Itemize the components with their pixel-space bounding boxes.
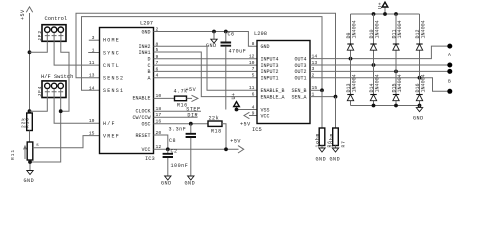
IC3 L297 left pin names [103,38,124,140]
svg-text:Control: Control [45,16,68,22]
svg-text:U+: U+ [231,92,237,99]
node GND symbol tap [212,30,216,34]
svg-text:1N4004: 1N4004 [397,74,403,92]
svg-text:OUT3: OUT3 [294,63,306,69]
+5V supply arrow top-left [20,7,33,53]
svg-text:SEN_A: SEN_A [291,94,306,100]
wire INH1 to ENABLE_A [154,52,258,97]
wire INH2 to ENABLE_B [154,46,258,90]
svg-text:C8: C8 [169,138,176,144]
node C2 junction [166,147,170,151]
svg-text:VREF: VREF [103,133,120,139]
wire R11 wiper to VREF [33,136,100,148]
svg-text:9: 9 [252,111,255,117]
connector JP2 Control [37,16,67,41]
svg-text:15: 15 [89,131,95,137]
ground GND below R6 [316,148,327,163]
svg-text:ENABLE_A: ENABLE_A [261,94,285,100]
svg-text:IC3: IC3 [145,156,155,162]
svg-text:11: 11 [89,60,95,66]
svg-text:A: A [147,76,150,82]
svg-text:8: 8 [252,41,255,47]
connector JP4 H/F Switch [37,74,73,98]
node SEN_A junction [334,95,338,99]
svg-text:R10: R10 [25,117,31,128]
resistor R7 1ohm [329,97,347,148]
wire OUT4 to terminal [310,46,450,59]
wire JP4 pin3 down to GND node [30,98,61,163]
svg-text:10: 10 [249,60,255,66]
wire OUT3 to terminal [310,64,450,66]
wire HOME stub [89,39,100,41]
IC IC5 L298 box [252,31,310,133]
svg-text:C: C [147,63,150,69]
svg-text:7: 7 [252,66,255,72]
wire R11 bottom to GND [29,160,31,170]
IC5 L298 left pin numbers [249,41,255,117]
node terminal A1 [447,44,452,49]
diode D9 1N4004 [346,14,357,106]
svg-text:CNTL: CNTL [103,63,120,69]
svg-text:VSS: VSS [261,107,270,113]
svg-text:JP2: JP2 [37,30,43,41]
svg-text:GND: GND [413,116,424,122]
svg-text:H/F: H/F [103,121,116,127]
supply U+ top rail [351,2,420,16]
svg-text:1N4004: 1N4004 [420,20,426,38]
svg-text:R7: R7 [341,140,347,147]
svg-text:+5V: +5V [186,87,197,93]
IC5 L298 right pin names [291,56,306,100]
svg-text:GND: GND [330,157,341,163]
svg-text:CW/CCW: CW/CCW [132,115,150,121]
svg-text:13: 13 [89,73,95,79]
svg-text:3.3nF: 3.3nF [169,126,187,132]
svg-text:GND: GND [206,43,217,49]
wire GND net L297 pin2 to L298 pin8 [154,32,258,47]
IC3 L297 left pin numbers [89,35,95,137]
wire CLOCK STEP stub [154,110,202,112]
svg-text:OSC: OSC [141,121,150,127]
capacitor C8 3.3nF [169,124,197,176]
resistor R16 4.7k with +5V [154,87,198,108]
ground GND left-bottom [24,171,35,185]
svg-text:100nF: 100nF [171,163,189,169]
diode D15 1N4004 [392,74,403,100]
wire A to INPUT1 [154,77,258,79]
node OUT4-D9 junction [349,57,353,61]
svg-text:VCC: VCC [261,114,270,120]
svg-text:OUT1: OUT1 [294,75,306,81]
svg-text:6: 6 [252,91,255,97]
wire SEN_A to sense node [310,96,336,98]
svg-text:OUT2: OUT2 [294,69,306,75]
svg-text:1: 1 [92,48,95,54]
node rail-JP2 junction [28,50,32,54]
wire JP2 pin1 to +5V rail [30,41,48,52]
node rail-GND junction [418,104,422,108]
IC3 L297 right pin numbers [156,27,162,151]
svg-text:GND: GND [185,180,196,186]
svg-text:D: D [147,57,150,63]
diode D11 1N4004 [392,14,403,106]
svg-text:INH1: INH1 [138,50,150,56]
node +5V arrow mid [230,139,243,153]
node rail-D15 junction [394,104,398,108]
svg-text:GND: GND [24,178,35,184]
svg-text:SENS2: SENS2 [103,76,124,82]
svg-text:11: 11 [249,85,255,91]
resistor R6 1ohm [315,90,333,148]
svg-text:R18: R18 [211,129,222,135]
diode D12 1N4004 [415,14,426,106]
svg-text:GND: GND [261,44,270,50]
svg-text:L297: L297 [140,21,153,27]
svg-text:1ohm: 1ohm [329,133,335,148]
node terminal A2 [447,63,452,68]
svg-text:4: 4 [252,104,255,110]
supply U+ at L298 VSS [231,92,257,111]
svg-text:B: B [147,69,150,75]
ground GND below C2 [161,176,172,186]
svg-text:RESET: RESET [135,133,150,139]
svg-text:22k: 22k [209,115,220,121]
wire B to INPUT2 [154,70,258,72]
svg-text:C6: C6 [228,32,235,38]
wire OUT1 to terminal [310,78,450,92]
wire SENS1 wrap over top [82,17,323,91]
diode D16 1N4004 [415,74,426,100]
svg-text:1N4004: 1N4004 [374,74,380,92]
wire bottom diode rail [351,105,420,107]
resistor R10 22k [20,113,32,131]
node terminal B1 [447,69,452,74]
svg-text:HOME: HOME [103,38,120,44]
node C6 tap [224,30,228,34]
svg-text:H/F Switch: H/F Switch [41,74,73,80]
svg-text:OUT4: OUT4 [294,56,306,62]
IC IC3 L297 box [100,21,155,163]
svg-text:+5V: +5V [240,122,251,128]
svg-text:IC5: IC5 [252,127,262,133]
wire VCC +5V line [154,148,239,150]
svg-text:B: B [448,78,451,84]
wire JP4 pin1 to +5V rail [30,98,48,112]
node rail-D14 junction [372,104,376,108]
diode D14 1N4004 [369,74,380,100]
svg-text:GND: GND [141,29,150,35]
node OUT2-D11 junction [394,70,398,74]
wire D to INPUT4 [154,58,258,60]
node DIR label [187,113,198,119]
svg-text:ENABLE_B: ENABLE_B [261,88,285,94]
node R11 bottom junction [28,160,32,164]
node rail-JP4 junction [28,109,32,113]
svg-text:12: 12 [249,53,255,59]
node JP4 pin3 junction [59,109,63,113]
wire OSC node [154,123,209,125]
ground GND mid-top [206,32,217,50]
wire JP2 pin3 to GND net staircase [61,41,69,111]
svg-text:19: 19 [89,118,95,124]
svg-text:1N4004: 1N4004 [351,20,357,38]
resistor R18 22k [208,115,226,149]
svg-text:GND: GND [316,157,327,163]
svg-text:INPUT4: INPUT4 [261,56,279,62]
svg-text:CLOCK: CLOCK [135,109,150,115]
svg-text:R11: R11 [10,149,16,160]
svg-text:SEN_B: SEN_B [291,88,306,94]
svg-text:+5V: +5V [230,139,241,145]
wire C to INPUT3 [154,64,258,66]
svg-text:JP4: JP4 [37,86,43,97]
svg-text:INPUT3: INPUT3 [261,63,279,69]
svg-text:1N4004: 1N4004 [420,74,426,92]
svg-text:INPUT1: INPUT1 [261,75,279,81]
wire CW/CCW DIR stub [154,116,198,118]
capacitor C6 470uF [221,32,247,110]
IC5 L298 left pin names [261,44,285,120]
svg-text:DIR: DIR [187,113,198,119]
ground GND below R7 [330,148,341,163]
svg-text:1N4004: 1N4004 [374,20,380,38]
wire SEN_B to sense node [310,89,322,91]
wire JP4 pin2 to H/F pin19 [54,98,99,124]
svg-text:5: 5 [252,72,255,78]
svg-text:VCC: VCC [141,147,150,153]
svg-text:SENS1: SENS1 [103,88,124,94]
svg-text:470uF: 470uF [229,49,247,55]
diode D13 1N4004 [346,74,357,100]
node SEN_B junction [320,88,324,92]
ground GND below C8 [185,176,196,186]
diode D10 1N4004 [369,14,380,106]
svg-text:ENABLE: ENABLE [132,96,150,102]
IC5 L298 right pin numbers [312,53,318,97]
node OUT1-D12 junction [418,76,422,80]
svg-text:s: s [36,143,39,148]
supply +5V at L298 VCC [240,112,257,127]
wire SYNC stub [88,52,99,54]
svg-text:SYNC: SYNC [103,50,120,56]
node OUT3-D10 junction [372,63,376,67]
svg-text:1ohm: 1ohm [315,133,321,148]
svg-text:C2: C2 [171,149,178,155]
node R18 junction [224,147,228,151]
svg-text:14: 14 [89,85,95,91]
capacitor C2 100nF [163,149,189,177]
svg-text:+5V: +5V [20,9,26,20]
svg-text:3: 3 [92,35,95,41]
svg-text:GND: GND [161,180,172,186]
ground GND diode rail [413,106,424,122]
svg-text:U+: U+ [378,2,384,9]
wire JP2 pin2 to CNTL [54,41,99,65]
IC3 L297 right pin names [132,29,150,153]
wire RESET to +5V node [154,135,168,149]
potentiometer R11 [10,142,39,160]
svg-text:L298: L298 [254,31,267,37]
svg-text:1N4004: 1N4004 [351,74,357,92]
node STEP label [186,107,200,113]
node OSC junction [189,122,193,126]
svg-text:A: A [448,52,451,58]
wire R10 to R11 [29,131,31,143]
svg-text:INPUT2: INPUT2 [261,69,279,75]
node terminal B2 [447,89,452,94]
wire SENS2 wrap over top [76,13,336,96]
svg-text:1N4004: 1N4004 [397,20,403,38]
wire OUT2 to terminal [310,70,450,72]
wire +5V rail [29,52,31,111]
